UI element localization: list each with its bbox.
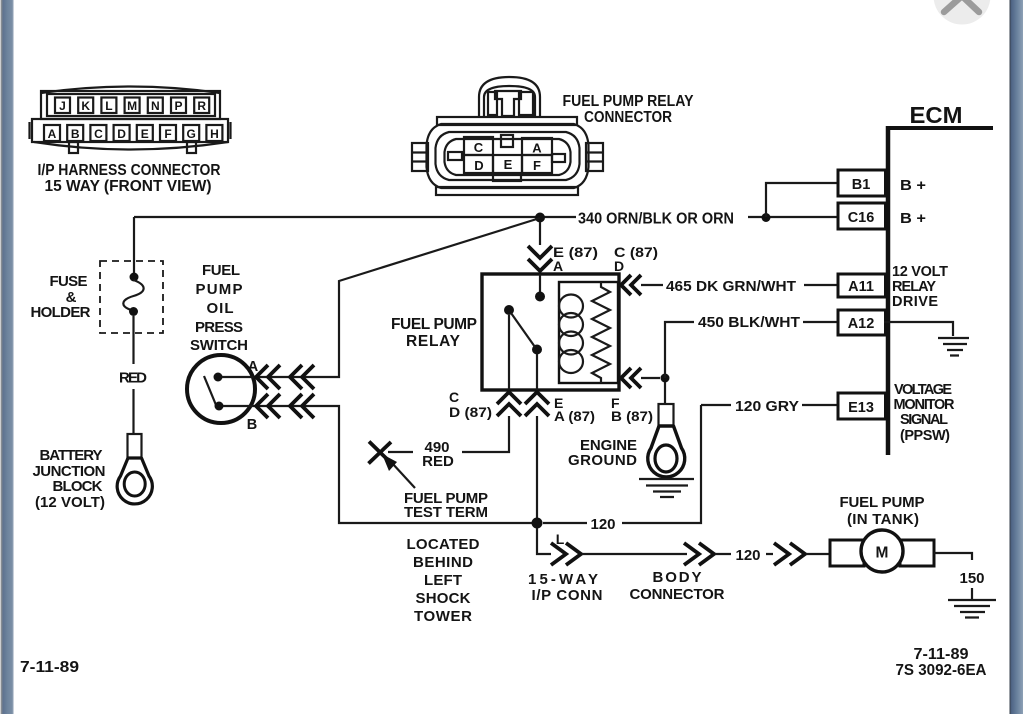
svg-text:B +: B + bbox=[900, 178, 926, 194]
svg-text:120: 120 bbox=[735, 547, 760, 564]
oil pressure switch S1 bbox=[187, 355, 255, 423]
wire fuse to battery RED bbox=[132, 316, 134, 434]
svg-text:C: C bbox=[94, 127, 103, 141]
svg-text:A12: A12 bbox=[848, 316, 875, 332]
ground symbol 150 bbox=[948, 600, 996, 618]
svg-text:SIGNAL: SIGNAL bbox=[900, 412, 948, 428]
fuel pump relay K1 box bbox=[482, 274, 619, 390]
svg-text:(PPSW): (PPSW) bbox=[900, 428, 950, 444]
left window border strip bbox=[0, 0, 14, 714]
fuel pump motor M1 bbox=[830, 530, 934, 572]
svg-text:7-11-89: 7-11-89 bbox=[20, 659, 79, 676]
svg-text:D: D bbox=[117, 127, 126, 141]
node main junction 120 bbox=[532, 518, 543, 529]
wire switch B to 120 line bbox=[223, 406, 532, 523]
ECM boundary bbox=[886, 126, 993, 455]
svg-text:15 WAY (FRONT VIEW): 15 WAY (FRONT VIEW) bbox=[45, 178, 212, 195]
svg-text:C16: C16 bbox=[848, 210, 875, 226]
caption FUEL PUMP RELAY bbox=[391, 316, 477, 350]
svg-text:E: E bbox=[141, 127, 149, 141]
I/P harness connector caption bbox=[38, 162, 221, 195]
wire to body connector bbox=[582, 553, 687, 555]
svg-text:FUEL PUMP: FUEL PUMP bbox=[391, 316, 477, 333]
right window border strip bbox=[1010, 0, 1023, 714]
svg-text:RED: RED bbox=[422, 453, 454, 470]
svg-text:F: F bbox=[164, 127, 171, 141]
connector pins A B C D E F G H bbox=[44, 125, 222, 141]
battery junction block ring terminal bbox=[117, 434, 152, 504]
svg-text:BATTERY: BATTERY bbox=[40, 447, 103, 464]
svg-text:A: A bbox=[553, 258, 563, 274]
fuel pump relay connector housing bbox=[412, 77, 603, 195]
ground symbol A12 bbox=[938, 338, 969, 356]
close button bbox=[934, 0, 991, 25]
ECM terminal B1 bbox=[838, 170, 886, 196]
svg-text:15-WAY: 15-WAY bbox=[528, 571, 598, 588]
svg-text:BEHIND: BEHIND bbox=[413, 554, 473, 571]
svg-text:I/P HARNESS CONNECTOR: I/P HARNESS CONNECTOR bbox=[38, 162, 221, 179]
svg-text:C: C bbox=[474, 140, 484, 155]
wire 120 junction segment bbox=[543, 522, 587, 524]
relay resistor bbox=[592, 282, 610, 383]
svg-text:I/P CONN: I/P CONN bbox=[532, 587, 603, 604]
chevrons relay bottom left C/D(87) bbox=[497, 392, 521, 416]
svg-text:PUMP: PUMP bbox=[196, 281, 243, 298]
svg-text:FUEL PUMP: FUEL PUMP bbox=[840, 494, 925, 511]
svg-text:A11: A11 bbox=[848, 279, 874, 295]
wire with label 120 bbox=[715, 553, 773, 555]
svg-text:CONNECTOR: CONNECTOR bbox=[630, 586, 725, 603]
svg-text:J: J bbox=[59, 99, 66, 113]
wire 340 ORN/BLK horizontal bbox=[134, 216, 838, 218]
svg-text:RED: RED bbox=[119, 370, 147, 387]
relay coil assembly box bbox=[559, 282, 618, 383]
svg-text:DRIVE: DRIVE bbox=[892, 294, 938, 310]
svg-text:P: P bbox=[174, 99, 182, 113]
svg-text:M: M bbox=[876, 545, 889, 562]
ECM terminal E13 bbox=[838, 393, 886, 419]
caption FUEL PUMP (IN TANK) bbox=[840, 494, 925, 528]
node junction 450/engine ground bbox=[661, 374, 670, 383]
caption 15-WAY I/P CONN bbox=[528, 571, 603, 604]
fuse holder dashed box bbox=[100, 261, 163, 333]
svg-text:7-11-89: 7-11-89 bbox=[914, 646, 969, 663]
relay switch contacts bbox=[504, 274, 545, 390]
caption ENGINE GROUND bbox=[568, 437, 637, 469]
svg-text:SHOCK: SHOCK bbox=[416, 590, 471, 607]
svg-text:465 DK GRN/WHT: 465 DK GRN/WHT bbox=[666, 279, 796, 295]
svg-text:H: H bbox=[210, 127, 219, 141]
fuel pump test terminal X bbox=[369, 442, 392, 464]
label 12 VOLT RELAY DRIVE bbox=[892, 264, 948, 310]
svg-text:FUSE: FUSE bbox=[50, 273, 88, 290]
node junction B+ branch bbox=[762, 213, 771, 222]
svg-text:D: D bbox=[614, 258, 624, 274]
svg-text:K: K bbox=[81, 99, 90, 113]
svg-text:OIL: OIL bbox=[207, 300, 234, 317]
svg-text:BLOCK: BLOCK bbox=[53, 478, 103, 495]
svg-text:R: R bbox=[197, 99, 206, 113]
svg-text:C: C bbox=[449, 389, 459, 405]
ground symbol engine bbox=[639, 479, 694, 497]
svg-text:B +: B + bbox=[900, 211, 926, 227]
svg-text:GROUND: GROUND bbox=[568, 452, 637, 469]
connector chevrons on wire A bbox=[256, 365, 314, 389]
svg-text:A (87): A (87) bbox=[554, 408, 595, 424]
svg-text:A: A bbox=[532, 141, 542, 156]
svg-text:A: A bbox=[248, 359, 259, 375]
wire 120 GRY from E13 down to 120 line bbox=[622, 405, 838, 523]
svg-text:G: G bbox=[187, 127, 196, 141]
chevrons relay right top C(87)/D bbox=[621, 275, 641, 295]
caption LOCATED BEHIND LEFT SHOCK TOWER bbox=[407, 536, 480, 625]
svg-text:12 VOLT: 12 VOLT bbox=[892, 264, 948, 280]
svg-text:E: E bbox=[504, 157, 513, 172]
connector pins J K L M N P R bbox=[55, 98, 209, 114]
wire junction down to 15-way line bbox=[537, 528, 551, 554]
svg-text:SWITCH: SWITCH bbox=[190, 337, 248, 354]
caption BODY CONNECTOR bbox=[630, 569, 725, 603]
wire 450 BLK/WHT to A12 bbox=[665, 322, 838, 378]
svg-text:120 GRY: 120 GRY bbox=[735, 399, 799, 415]
svg-text:N: N bbox=[151, 99, 160, 113]
svg-text:ECM: ECM bbox=[910, 102, 963, 128]
svg-text:340 ORN/BLK OR ORN: 340 ORN/BLK OR ORN bbox=[578, 211, 734, 228]
svg-text:E13: E13 bbox=[848, 400, 874, 416]
fuse F1 bbox=[123, 273, 143, 317]
svg-text:TOWER: TOWER bbox=[414, 608, 472, 625]
wire B+ branch to B1 bbox=[766, 183, 838, 217]
svg-text:D: D bbox=[474, 158, 483, 173]
relay coil L1 bbox=[559, 295, 583, 374]
svg-text:LOCATED: LOCATED bbox=[407, 536, 480, 553]
svg-text:B (87): B (87) bbox=[611, 408, 653, 424]
svg-text:BODY: BODY bbox=[653, 569, 702, 586]
svg-text:(12 VOLT): (12 VOLT) bbox=[35, 494, 105, 511]
chevrons relay top pin E(87)/A bbox=[528, 246, 552, 271]
svg-text:M: M bbox=[127, 99, 137, 113]
caption BATTERY JUNCTION BLOCK (12 VOLT) bbox=[33, 447, 106, 511]
svg-text:HOLDER: HOLDER bbox=[31, 304, 91, 321]
arrow to test terminal bbox=[382, 454, 415, 488]
svg-text:A: A bbox=[48, 127, 57, 141]
svg-text:150: 150 bbox=[959, 570, 984, 587]
svg-text:LEFT: LEFT bbox=[424, 572, 462, 589]
svg-text:450 BLK/WHT: 450 BLK/WHT bbox=[698, 315, 800, 331]
chevrons 15-way I/P conn bbox=[551, 543, 581, 565]
caption FUSE & HOLDER bbox=[31, 273, 91, 321]
svg-text:MONITOR: MONITOR bbox=[894, 397, 956, 413]
wire relay D(87) pin to test terminal 490 RED bbox=[388, 416, 509, 452]
connector chevrons on wire B bbox=[256, 394, 314, 418]
wire switch A to relay drop bbox=[222, 218, 540, 377]
svg-text:120: 120 bbox=[590, 516, 615, 533]
svg-text:L: L bbox=[556, 531, 565, 547]
fuel pump relay connector caption bbox=[563, 93, 695, 126]
wire relay B(87) pin to 450 junction bbox=[641, 377, 660, 379]
svg-text:(IN TANK): (IN TANK) bbox=[847, 511, 919, 528]
svg-text:CONNECTOR: CONNECTOR bbox=[584, 109, 672, 126]
svg-text:L: L bbox=[105, 99, 112, 113]
svg-text:PRESS: PRESS bbox=[195, 319, 243, 336]
chevrons relay right bottom F/B(87) bbox=[621, 368, 641, 388]
node junction 340/relay bbox=[535, 213, 545, 223]
svg-text:B1: B1 bbox=[852, 177, 871, 193]
svg-text:TEST TERM: TEST TERM bbox=[404, 504, 488, 521]
wire 340 down to fuse bbox=[133, 217, 135, 273]
svg-text:RELAY: RELAY bbox=[892, 279, 936, 295]
wire 465 DK GRN/WHT to A11 bbox=[641, 284, 838, 286]
svg-text:FUEL PUMP RELAY: FUEL PUMP RELAY bbox=[563, 93, 695, 110]
label VOLTAGE MONITOR SIGNAL (PPSW) bbox=[894, 382, 956, 444]
chevrons relay bottom mid E/A(87) bbox=[525, 392, 549, 416]
svg-text:7S 3092-6EA: 7S 3092-6EA bbox=[896, 662, 987, 679]
wire junction to engine ground bbox=[664, 382, 666, 404]
label 490 RED bbox=[422, 439, 454, 470]
relay connector pins C A D E F bbox=[464, 137, 552, 173]
svg-text:B: B bbox=[71, 127, 80, 141]
I/P harness connector housing bbox=[30, 87, 231, 154]
wire A12 to ground bbox=[884, 322, 953, 336]
caption FUEL PUMP TEST TERM bbox=[404, 490, 488, 521]
chevrons body connector bbox=[684, 543, 714, 565]
svg-text:FUEL: FUEL bbox=[202, 262, 240, 279]
ECM terminal C16 bbox=[838, 203, 886, 229]
wire pump to 150 ground bbox=[934, 553, 972, 599]
svg-text:F: F bbox=[533, 158, 541, 173]
svg-text:B: B bbox=[247, 417, 257, 433]
chevrons to fuel pump bbox=[774, 543, 805, 565]
svg-text:VOLTAGE: VOLTAGE bbox=[894, 382, 952, 398]
wire relay top pin bbox=[539, 222, 541, 245]
wire relay A(87) pin down to junction bbox=[536, 416, 538, 518]
svg-text:D (87): D (87) bbox=[449, 404, 492, 420]
engine ground ring terminal bbox=[648, 404, 685, 477]
wire chevron to pump bbox=[806, 553, 830, 555]
svg-text:RELAY: RELAY bbox=[406, 333, 461, 350]
ECM terminal A11 bbox=[838, 274, 886, 297]
caption FUEL PUMP OIL PRESS SWITCH bbox=[190, 262, 248, 354]
ECM terminal A12 bbox=[838, 310, 886, 335]
